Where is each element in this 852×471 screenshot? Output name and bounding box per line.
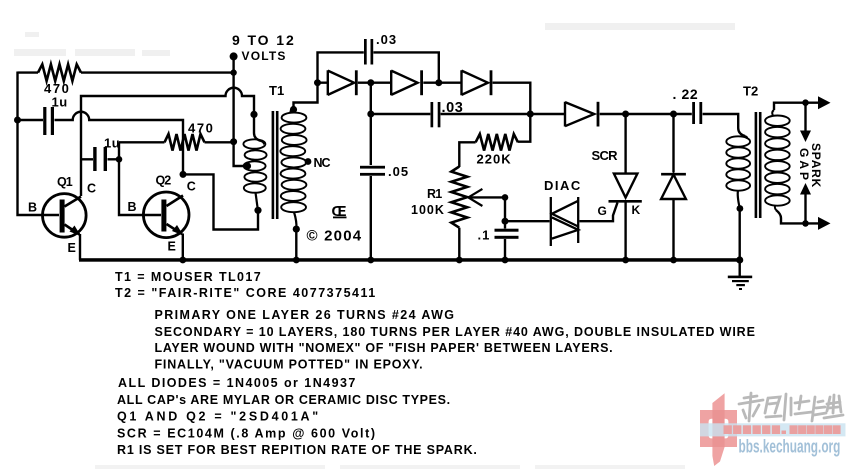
svg-text:GAP: GAP [797, 148, 811, 183]
node rail T1 secondary [293, 257, 300, 264]
NOTES TEXT BLOCK [115, 270, 756, 457]
wire T2 secondary top to spark gap [774, 103, 826, 110]
node supply terminal dot [230, 52, 238, 60]
diode D5 freewheel [661, 174, 686, 199]
capacitor .1 plates [495, 229, 519, 239]
wire 1u-B leads [81, 158, 119, 160]
svg-text:NC: NC [314, 156, 331, 170]
wire 220K left lead down to R1 [459, 142, 475, 167]
svg-text:470: 470 [188, 120, 215, 135]
node T1 primary top phase dot [250, 111, 257, 118]
kechuang logo pink zhong [700, 393, 737, 466]
svg-text:© 2004: © 2004 [307, 228, 363, 245]
node Q2 collector [180, 171, 187, 178]
potentiometer R1 wiper arrow [468, 189, 482, 206]
wire D4 row to T2 [530, 114, 745, 136]
transformer T2 secondary coil [765, 110, 790, 210]
resistor 220K [476, 134, 518, 151]
svg-text:Q1 AND Q2 = "2SD401A": Q1 AND Q2 = "2SD401A" [117, 410, 321, 424]
node T2 primary bottom [737, 205, 744, 212]
capacitor .03A plates [364, 39, 373, 65]
faint ghost text top left [14, 32, 170, 56]
wire 220K right lead up [518, 114, 530, 142]
wire .03A bridge over D1 D2 [318, 52, 439, 82]
transistor Q1 2SD401A [43, 194, 87, 238]
node rail R1 [456, 257, 463, 264]
svg-text:220K: 220K [477, 152, 512, 167]
svg-text:. 22: . 22 [673, 86, 699, 102]
wire node to DIAC [505, 220, 550, 222]
node rail D5 [670, 257, 677, 264]
node spark gap bottom [802, 220, 809, 227]
wire 1u-A row with hop [18, 112, 184, 176]
node rail T2 ground [736, 256, 743, 263]
node .03B left [367, 111, 374, 118]
svg-text:100K: 100K [411, 203, 445, 217]
svg-text:T1: T1 [269, 83, 284, 98]
node supply at 470-B [230, 138, 237, 145]
svg-text:T2: T2 [743, 84, 758, 99]
svg-text:.1: .1 [478, 227, 491, 242]
node T1 secondary bottom [293, 226, 300, 233]
wire spark gap vertical arrows shafts [804, 103, 806, 224]
wire .03B row [371, 113, 531, 115]
faint ghost text top middle [545, 23, 735, 30]
wire Q2 collector to T1 primary bottom [183, 174, 258, 229]
wire D5 verticals [672, 114, 674, 260]
node SCR anode [622, 111, 629, 118]
spark gap arrow up [800, 183, 811, 195]
blue band [700, 423, 846, 436]
wire top row supply [18, 71, 235, 73]
svg-text:B: B [28, 201, 39, 215]
svg-text:.05: .05 [388, 164, 409, 179]
node T1 secondary NC tap [305, 158, 312, 165]
node R1 wiper junction [502, 194, 509, 201]
node D2 D3 junction [435, 79, 442, 86]
svg-text:1u: 1u [104, 136, 120, 151]
wire SCR anode vertical [624, 114, 626, 173]
svg-text:B: B [128, 200, 139, 214]
wire .1 cap bottom to rail [504, 239, 506, 260]
potentiometer R1 100K vertical zigzag [451, 167, 467, 228]
node DIAC branch [502, 218, 509, 225]
svg-text:G: G [598, 204, 609, 218]
svg-text:Q1: Q1 [57, 175, 73, 189]
wire T1 secondary top to diode chain [294, 83, 318, 108]
node rail SCR [622, 257, 629, 264]
red slogan text approximation [724, 425, 841, 434]
wire T2 primary bottom to ground [739, 206, 741, 276]
wire Q1 emitter down to rail [79, 234, 81, 260]
svg-text:1u: 1u [52, 95, 68, 110]
transistor Q2 2SD401A [143, 192, 189, 238]
transformer T2 primary coil [726, 136, 750, 208]
node rail .1 [502, 257, 509, 264]
svg-text:T1 = MOUSER TL017: T1 = MOUSER TL017 [115, 270, 262, 284]
capacitor .05 plates [360, 166, 385, 176]
wire T1 secondary bottom to ground rail [295, 230, 297, 260]
ground symbol [728, 276, 752, 290]
wire Q2 base feed vertical [119, 142, 161, 215]
diode D4 [565, 102, 598, 127]
diode D3 [462, 70, 492, 95]
diode D1 [328, 70, 357, 95]
transistor Q2 emitter arrowhead [172, 225, 183, 236]
node D5 cathode [670, 111, 677, 118]
capacitor .03B plates [431, 102, 441, 127]
svg-text:SCR: SCR [592, 148, 619, 163]
svg-text:Q2: Q2 [156, 174, 172, 188]
wire R1 wiper to node [469, 197, 506, 228]
capacitor .22 plates [692, 102, 702, 124]
svg-text:SECONDARY = 10 LAYERS, 180 TUR: SECONDARY = 10 LAYERS, 180 TURNS PER LAY… [155, 325, 756, 339]
svg-text:C: C [87, 182, 98, 196]
svg-text:VOLTS: VOLTS [242, 49, 287, 63]
node supply at top row [230, 69, 236, 75]
node spark gap top [802, 99, 809, 106]
spark gap arrow down [800, 131, 811, 143]
resistor 470-A [38, 64, 81, 81]
wire DIAC to SCR gate [580, 203, 618, 222]
wire 470-B leads [119, 141, 234, 143]
node 1u-B to Q2 base [116, 156, 123, 163]
node rail Q2 emitter [179, 257, 186, 264]
wire vertical node .05 branch [370, 83, 372, 260]
svg-text:R1: R1 [427, 187, 442, 201]
wire diode row D1 D2 D3 [318, 83, 531, 114]
svg-text:ALL CAP's ARE MYLAR OR CERAMIC: ALL CAP's ARE MYLAR OR CERAMIC DISC TYPE… [117, 393, 451, 407]
svg-text:R1 IS SET FOR BEST REPITION RA: R1 IS SET FOR BEST REPITION RATE OF THE … [117, 443, 478, 457]
resistor 470-B [165, 134, 205, 151]
wire SCR cathode to rail [624, 203, 626, 260]
kechuang gray calligraphy [739, 393, 843, 421]
node T1 secondary top [290, 106, 297, 113]
node left rail at 1u-A [14, 117, 21, 124]
spark gap arrow bottom right [818, 217, 831, 230]
transformer T1 secondary coil [280, 108, 306, 228]
svg-text:bbs.kechuang.org: bbs.kechuang.org [739, 437, 841, 457]
spark gap arrow top right [818, 96, 831, 109]
wire T2 secondary bottom to spark gap [776, 210, 826, 223]
svg-text:LAYER WOUND WITH "NOMEX" OF "F: LAYER WOUND WITH "NOMEX" OF "FISH PAPER'… [155, 341, 614, 355]
transformer T1 core bars [272, 111, 279, 219]
SCR EC104M triangle and cathode [609, 174, 642, 202]
capacitor 1u-B plates [93, 147, 107, 171]
svg-text:.03: .03 [376, 32, 397, 47]
svg-text:E: E [68, 241, 78, 255]
wire supply vertical from 9-12V terminal [234, 58, 247, 166]
node D1 anode [314, 79, 321, 86]
svg-text:E: E [168, 240, 178, 254]
capacitor 1u-A plates [43, 107, 54, 135]
DIAC symbol [551, 197, 578, 246]
svg-text:DIAC: DIAC [544, 178, 582, 193]
node D1 D2 junction [367, 79, 374, 86]
diode D2 [391, 70, 421, 95]
wire R1 bottom to rail [458, 228, 460, 260]
transformer T2 core bars [755, 112, 762, 218]
wire Q2 emitter down to rail [182, 234, 184, 260]
svg-text:C: C [187, 180, 198, 194]
svg-text:ALL DIODES = 1N4005 or 1N4937: ALL DIODES = 1N4005 or 1N4937 [118, 376, 357, 390]
node T1 primary bottom [254, 207, 261, 214]
svg-text:T2 = "FAIR-RITE" CORE 40773754: T2 = "FAIR-RITE" CORE 4077375411 [115, 286, 377, 300]
svg-text:SCR = EC104M (.8 Amp @ 600 Vol: SCR = EC104M (.8 Amp @ 600 Volt) [117, 427, 377, 441]
node T1 primary center tap [244, 162, 251, 169]
node rail .05 [367, 257, 374, 264]
svg-text:.03: .03 [442, 100, 464, 116]
svg-text:K: K [632, 203, 642, 217]
ground rail [79, 258, 742, 262]
svg-text:PRIMARY ONE LAYER 26 TURNS #24: PRIMARY ONE LAYER 26 TURNS #24 AWG [155, 308, 456, 322]
wire left rail vertical [18, 72, 60, 216]
transistor Q1 emitter arrowhead [70, 226, 81, 237]
transformer T1 primary coil [243, 139, 266, 211]
node .03B right [527, 111, 534, 118]
svg-text:9 TO 12: 9 TO 12 [232, 32, 296, 48]
wire Q1 collector row with hop [81, 88, 261, 196]
svg-text:FINALLY, "VACUUM POTTED" IN EP: FINALLY, "VACUUM POTTED" IN EPOXY. [155, 358, 424, 372]
faint bottom smudge [95, 465, 685, 469]
